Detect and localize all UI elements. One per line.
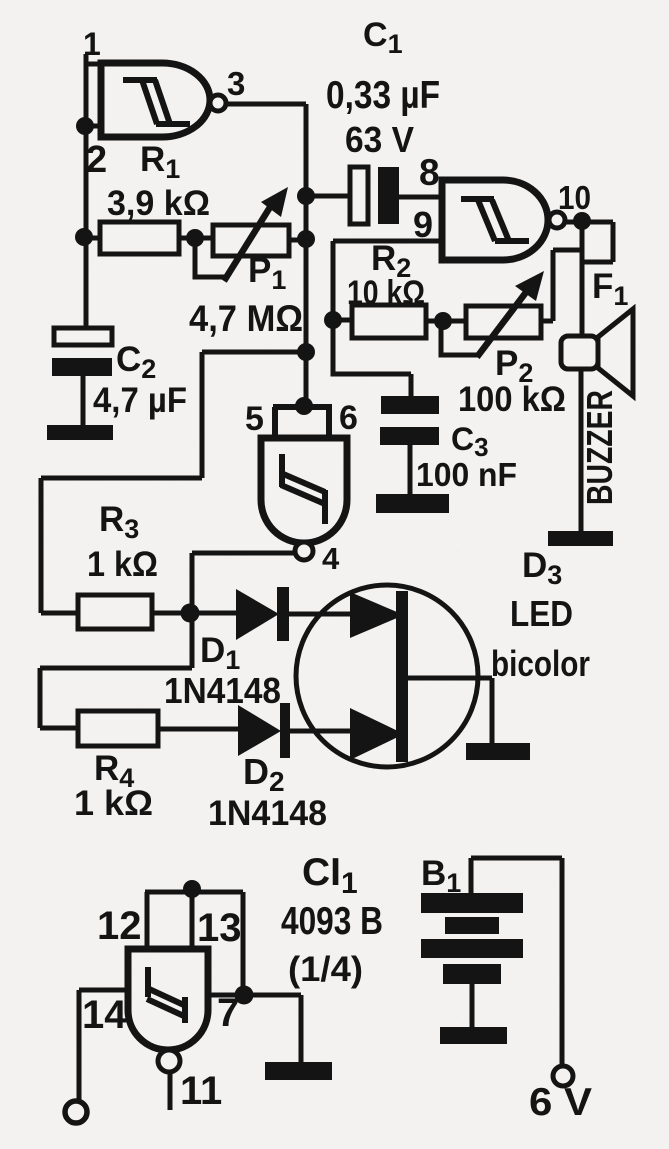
ground under battery [440, 1027, 507, 1044]
nand gate CI1d body [128, 949, 208, 1050]
resistor R3 body [78, 595, 152, 629]
svg-text:4,7 MΩ: 4,7 MΩ [189, 298, 303, 339]
hysteresis symbol gate A [123, 80, 190, 124]
node feedback branch [297, 343, 315, 361]
node wiper junction [186, 229, 204, 247]
svg-text:1N4148: 1N4148 [208, 794, 327, 833]
wire P2 right up to buzzer net [541, 250, 582, 321]
terminal 6V [553, 1066, 573, 1086]
wire R2 right [426, 319, 466, 324]
wire pin 10 staircase to buzzer [565, 222, 613, 337]
svg-text:4: 4 [322, 541, 340, 576]
wire R4 chain [40, 668, 192, 728]
output bubble pin 10 [549, 212, 565, 228]
ground under C2 [47, 425, 113, 440]
node R3 D1 [181, 604, 200, 623]
wire pin 4 to node [192, 553, 295, 668]
svg-text:10: 10 [558, 179, 591, 216]
ground bar D3 [548, 531, 613, 546]
diode D1 [236, 589, 279, 640]
output bubble pin 11 [158, 1050, 180, 1072]
wire pin3 output to vertical bus [226, 104, 306, 406]
svg-text:(1/4): (1/4) [288, 950, 363, 989]
buzzer cone [598, 309, 633, 396]
svg-text:11: 11 [180, 1069, 222, 1113]
wire bus to C1 [306, 194, 350, 199]
wire battery plus to 6V terminal [471, 858, 562, 1065]
capacitor C3 bottom plate [380, 427, 439, 445]
svg-text:bicolor: bicolor [491, 643, 590, 684]
svg-text:3,9 kΩ: 3,9 kΩ [107, 184, 210, 223]
resistor R4 body [78, 711, 158, 746]
wire buzzer to ground [579, 369, 584, 531]
wire resistor to P1 [179, 236, 213, 241]
svg-text:0,33 µF: 0,33 µF [326, 74, 440, 117]
wire C3 to ground [408, 445, 413, 495]
wire R3 to D1 [152, 611, 236, 616]
ground under C3 [376, 494, 449, 513]
output bubble pin 3 [210, 95, 226, 111]
gate D input bridge [145, 892, 243, 995]
wire C1 to pin 8 [399, 195, 442, 200]
svg-text:LED: LED [510, 593, 573, 634]
svg-text:BUZZER: BUZZER [579, 390, 620, 505]
svg-text:1N4148: 1N4148 [164, 670, 281, 711]
node C1 branch [297, 187, 315, 205]
node gate C input [295, 397, 313, 415]
svg-text:7: 7 [217, 991, 239, 1035]
svg-text:6 V: 6 V [529, 1081, 592, 1124]
svg-text:8: 8 [419, 152, 440, 193]
wire C2 to ground [81, 376, 86, 425]
arrow P2 wiper [477, 287, 530, 357]
wire left rail pins 1-2 to C2 [86, 54, 101, 330]
wire feedback left chain to R3 [41, 352, 306, 613]
diode D2 [238, 705, 281, 756]
wire battery to ground [470, 984, 475, 1027]
hysteresis symbol gate B [461, 199, 529, 241]
svg-text:2: 2 [86, 139, 107, 181]
LED bottom diode [350, 708, 404, 760]
svg-text:100 nF: 100 nF [416, 456, 517, 493]
capacitor C1 right plate [378, 167, 399, 224]
wire LED to ground [408, 678, 492, 744]
wire P1 right to bus [289, 238, 306, 243]
node P2 left [434, 312, 452, 330]
capacitor C2 top plate [54, 328, 112, 345]
node pin 7 [235, 986, 254, 1005]
wire P1 wiper link [195, 243, 226, 277]
buzzer F1 box [561, 336, 598, 369]
hysteresis symbol gate D [147, 967, 186, 1023]
svg-text:4,7 µF: 4,7 µF [93, 381, 187, 420]
svg-text:1: 1 [83, 26, 101, 62]
output bubble pin 4 [295, 542, 313, 560]
nand gate CI1b body [442, 180, 548, 260]
pin 14 wire [79, 990, 128, 1101]
svg-text:14: 14 [82, 993, 127, 1037]
LED top diode [350, 592, 404, 638]
svg-text:6: 6 [339, 399, 358, 437]
nand gate CI1c body [261, 438, 347, 543]
wire D2 to LED [290, 729, 350, 734]
svg-text:1 kΩ: 1 kΩ [87, 545, 158, 584]
node rail R left [75, 228, 93, 246]
resistor R2 body [352, 305, 426, 338]
wire R2 left [333, 318, 352, 323]
svg-text:63 V: 63 V [345, 119, 414, 160]
wire pin 11 down [168, 1072, 173, 1110]
wire R2 node to C3 [333, 320, 411, 396]
wire C2 rail [84, 237, 89, 330]
wire P2 wiper link [441, 321, 478, 355]
svg-text:1 kΩ: 1 kΩ [74, 784, 153, 823]
arrow P1 wiper [224, 204, 272, 281]
svg-text:5: 5 [245, 400, 264, 438]
node pin 10 [573, 212, 591, 230]
wire D1 to LED [289, 612, 350, 617]
svg-text:100 kΩ: 100 kΩ [458, 380, 566, 419]
node P1 right [297, 230, 315, 248]
resistor 3.9k body [100, 222, 179, 254]
svg-text:13: 13 [197, 906, 242, 950]
LED bicolor circle [296, 585, 478, 767]
capacitor C1 left plate [350, 167, 368, 224]
svg-text:12: 12 [97, 904, 142, 948]
pin 7 wire [208, 995, 301, 1062]
battery B1 plates [421, 893, 523, 913]
ground under pin 7 [265, 1062, 332, 1080]
svg-text:3: 3 [227, 65, 245, 102]
LED cathode bar [396, 591, 408, 762]
potentiometer P2 body [466, 306, 541, 338]
capacitor C2 bottom plate [52, 358, 112, 376]
gate C input bridge [273, 407, 332, 438]
wire R4 to D2 [158, 727, 238, 732]
node pin2 junction [76, 117, 94, 135]
ground under LED [466, 743, 530, 760]
capacitor C3 top plate [381, 396, 439, 414]
potentiometer P1 body [213, 225, 289, 256]
node R2 left [324, 311, 342, 329]
node bridge [183, 880, 201, 898]
hysteresis symbol gate C [281, 454, 325, 524]
nand gate CI1a body [101, 63, 210, 137]
terminal pin 14 [65, 1101, 87, 1123]
wire pin 9 to R2 [333, 241, 442, 313]
svg-text:4093 B: 4093 B [281, 900, 383, 943]
wire rail to resistor [84, 236, 100, 241]
